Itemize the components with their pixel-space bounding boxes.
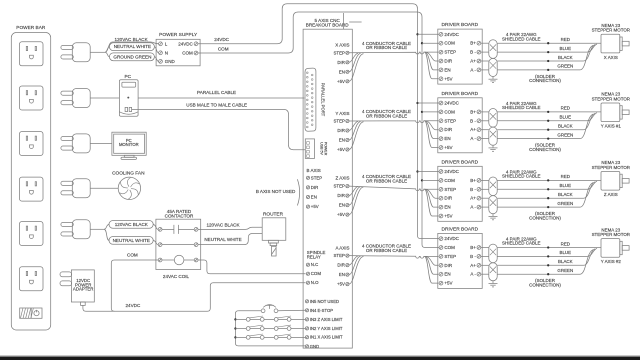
- wire A AXIS +5V fan-out: [425, 256, 439, 283]
- svg-text:B -: B -: [470, 118, 476, 123]
- breakout Y AXIS DIR terminal: [337, 128, 349, 133]
- svg-text:+5V: +5V: [444, 214, 452, 219]
- label solder connection board 4: [529, 278, 561, 287]
- USB port: [305, 139, 314, 159]
- svg-text:STEPPER MOTOR: STEPPER MOTOR: [592, 28, 630, 33]
- power switch symbol: [34, 310, 39, 316]
- svg-text:STEP: STEP: [444, 50, 456, 55]
- junction dot limit bus IN2 Y: [234, 327, 236, 329]
- outlet 1: [19, 42, 43, 66]
- svg-text:RED: RED: [561, 106, 570, 111]
- svg-text:IN2 Y AXIS LIMIT: IN2 Y AXIS LIMIT: [310, 326, 343, 331]
- contactor contact symbol row1: [162, 225, 194, 234]
- junction dot 24VDC bus board 1: [416, 33, 418, 35]
- twisted pair capsule 2 board 1: [489, 58, 497, 76]
- svg-text:120VAC BLACK: 120VAC BLACK: [115, 222, 149, 227]
- power supply box: [156, 39, 200, 66]
- driver 1 terminal A+: [470, 59, 481, 64]
- label 4 conductor cable A AXIS: [362, 244, 411, 253]
- svg-text:B -: B -: [470, 50, 476, 55]
- plug P2 (PC): [61, 89, 90, 108]
- wires driver 1 to twisted pairs: [481, 43, 489, 70]
- wire X AXIS EN fan-in: [349, 53, 361, 71]
- svg-text:OR RIBBON CABLE: OR RIBBON CABLE: [366, 113, 407, 118]
- limit switches IN1 X axis: [235, 334, 305, 339]
- svg-text:24VAC COIL: 24VAC COIL: [163, 274, 190, 279]
- spindle relay label: [307, 250, 326, 259]
- svg-text:BLACK: BLACK: [558, 259, 573, 264]
- driver 3 terminal +5V: [439, 214, 452, 219]
- wire Z AXIS +5V fan-out: [425, 189, 439, 216]
- wires driver 3 to twisted pairs: [481, 180, 489, 207]
- power bar switch (hatched box): [20, 308, 42, 318]
- svg-text:STEP: STEP: [444, 254, 456, 259]
- wire Y AXIS EN fan-out: [425, 121, 439, 139]
- breakout board leader line: [344, 13, 362, 29]
- solder junction dot RED board 3: [547, 179, 549, 181]
- wire to contactor row1: [104, 224, 158, 229]
- wire plug P5 to splitter: [90, 228, 104, 230]
- solder junction dot BLACK board 1: [547, 60, 549, 62]
- driver board 1 box: [438, 29, 482, 84]
- svg-text:SHIELDED CABLE: SHIELDED CABLE: [502, 174, 541, 179]
- svg-text:X AXIS: X AXIS: [604, 55, 618, 60]
- wire 24VDC bus to driver 3: [418, 171, 440, 173]
- wire plug P4 to fan: [90, 187, 118, 189]
- outlet 5: [19, 222, 43, 246]
- svg-text:A -: A -: [470, 272, 476, 277]
- breakout B AXIS STEP terminal: [306, 175, 322, 180]
- wire 24VDC bus to driver 1: [418, 33, 440, 35]
- cable shield ground board 2: [489, 145, 498, 151]
- wire BLACK board 3: [497, 182, 595, 198]
- junction dot COM bus board 3: [421, 179, 423, 181]
- PC monitor label: [119, 138, 139, 147]
- svg-text:Z AXIS: Z AXIS: [335, 176, 349, 181]
- wire Y AXIS DIR fan-out: [425, 121, 439, 130]
- driver 1 terminal 24VDC: [439, 32, 460, 37]
- limit switch left bus: [235, 311, 305, 346]
- svg-text:+5V: +5V: [444, 145, 452, 150]
- svg-text:STEP: STEP: [444, 187, 456, 192]
- breakout board body: [303, 29, 352, 348]
- svg-text:+5V: +5V: [444, 76, 452, 81]
- label GROUND GREEN in stadium: [109, 53, 154, 61]
- wire Z AXIS +5V fan-in: [349, 187, 364, 215]
- twist cross 1 board 2: [490, 113, 496, 120]
- wire GREEN board 1: [497, 45, 593, 70]
- twisted pair capsule 1 board 3: [489, 177, 497, 196]
- solder junction dot BLUE board 2: [547, 120, 549, 122]
- junction dot limit bus IN3 Z: [234, 318, 236, 320]
- terminal COM output: [182, 51, 198, 56]
- svg-text:GREEN: GREEN: [557, 132, 573, 137]
- svg-text:CONNECTION): CONNECTION): [529, 215, 561, 220]
- wire GREEN board 3: [497, 183, 593, 208]
- wire RED board 2: [497, 111, 601, 113]
- driver 3 terminal A -: [470, 205, 480, 210]
- power bar body: [11, 33, 50, 331]
- plug P4 (cooling fan): [61, 179, 90, 198]
- breakout Z AXIS STEP terminal: [334, 184, 349, 189]
- breakout input terminal GND: [305, 344, 319, 349]
- label NEUTRAL WHITE in stadium (contactor input): [109, 237, 153, 245]
- svg-text:A -: A -: [470, 136, 476, 141]
- spindle relay COM terminal: [306, 271, 321, 276]
- wire GREEN board 2: [497, 114, 593, 139]
- svg-text:A+: A+: [470, 59, 476, 64]
- contactor terminals row1: [158, 228, 198, 232]
- driver 4 terminal STEP: [439, 254, 456, 259]
- wire A AXIS ribbon cable main line with hops: [349, 256, 439, 259]
- svg-text:IN5 NOT USED: IN5 NOT USED: [310, 299, 339, 304]
- svg-text:BLUE: BLUE: [560, 250, 572, 255]
- svg-text:B -: B -: [470, 187, 476, 192]
- parallel port DB25 connector: [305, 68, 316, 131]
- breakout Z AXIS +5V terminal: [337, 212, 349, 217]
- wire parallel cable: [138, 97, 304, 99]
- PC tower: [119, 80, 138, 117]
- wire Y AXIS +5V fan-in: [349, 122, 364, 150]
- plug P5 (contactor): [61, 220, 90, 239]
- svg-text:USB 5V: USB 5V: [320, 142, 324, 155]
- svg-text:STEPPER MOTOR: STEPPER MOTOR: [592, 165, 630, 170]
- svg-text:OR RIBBON CABLE: OR RIBBON CABLE: [366, 248, 407, 253]
- driver 1 terminal +5V: [439, 76, 452, 81]
- svg-text:A+: A+: [470, 263, 476, 268]
- driver 2 terminal 24VDC: [439, 101, 460, 106]
- twisted pair capsule 2 board 4: [489, 263, 497, 281]
- breakout B AXIS +5V terminal: [306, 204, 318, 209]
- wire A AXIS DIR fan-out: [425, 256, 439, 265]
- stepper motor M2: [601, 103, 629, 122]
- breakout A AXIS EN terminal: [339, 272, 349, 277]
- wire GREEN board 4: [497, 250, 593, 275]
- wire ground green to GND: [105, 52, 159, 61]
- svg-text:COM: COM: [311, 271, 322, 276]
- svg-text:N.O: N.O: [311, 280, 319, 285]
- wire BLACK board 2: [497, 113, 595, 129]
- svg-text:CONNECTION): CONNECTION): [529, 147, 561, 152]
- svg-text:RED: RED: [561, 241, 570, 246]
- svg-text:COM: COM: [182, 51, 193, 56]
- svg-text:DRIVER BOARD: DRIVER BOARD: [442, 226, 479, 232]
- svg-text:IN3 Z AXIS LIMIT: IN3 Z AXIS LIMIT: [310, 317, 343, 322]
- wire X AXIS DIR fan-out: [425, 52, 439, 61]
- svg-text:STEPPER MOTOR: STEPPER MOTOR: [592, 232, 630, 237]
- svg-text:RED: RED: [561, 37, 570, 42]
- svg-text:STEP: STEP: [334, 119, 345, 124]
- driver 2 terminal STEP: [439, 118, 456, 123]
- svg-text:POWER SUPPLY: POWER SUPPLY: [159, 32, 198, 38]
- driver 4 terminal B -: [470, 254, 481, 259]
- terminal GND: [159, 59, 176, 64]
- svg-text:DIR: DIR: [311, 185, 318, 190]
- solder junction dot RED board 1: [547, 42, 549, 44]
- solder junction dot RED board 2: [547, 111, 549, 113]
- svg-text:COM: COM: [444, 109, 455, 114]
- driver 3 terminal EN: [439, 205, 451, 210]
- router collet and plug: [269, 240, 279, 256]
- driver 2 terminal COM: [439, 109, 455, 114]
- wire coil COM to bottom rail: [111, 260, 158, 311]
- label 4 pair 22AWG shielded cable 3: [502, 169, 541, 178]
- stepper motor M2 label: [592, 92, 630, 102]
- label solder connection board 1: [529, 74, 561, 83]
- svg-text:IN4 E-STOP: IN4 E-STOP: [310, 308, 333, 313]
- svg-text:Y AXIS: Y AXIS: [335, 111, 349, 116]
- breakout B AXIS EN terminal: [306, 195, 316, 200]
- driver 1 terminal EN: [439, 67, 451, 72]
- label 4 pair 22AWG shielded cable 2: [502, 101, 541, 110]
- stepper motor M3: [601, 172, 629, 191]
- label 4 pair 22AWG shielded cable 1: [502, 32, 541, 41]
- driver 4 terminal A -: [470, 272, 480, 277]
- solder junction dot BLACK board 4: [547, 264, 549, 266]
- wire A AXIS EN fan-out: [425, 256, 439, 274]
- twist cross 2 board 2: [490, 131, 496, 138]
- junction dot 24VDC bus board 2: [416, 102, 418, 104]
- solder junction dot GREEN board 4: [547, 273, 549, 275]
- svg-text:X AXIS: X AXIS: [335, 42, 349, 47]
- driver 3 terminal STEP: [439, 187, 456, 192]
- spindle relay N.O terminal: [306, 280, 319, 285]
- svg-text:DIR: DIR: [337, 193, 344, 198]
- wire coil to spindle relay COM: [198, 260, 306, 274]
- svg-text:COM: COM: [444, 41, 455, 46]
- svg-text:COM: COM: [218, 46, 229, 51]
- wire plug P2 to PC: [90, 97, 119, 99]
- svg-text:STEP: STEP: [334, 253, 345, 258]
- svg-text:GND: GND: [165, 59, 176, 64]
- svg-text:BLACK: BLACK: [558, 192, 573, 197]
- junction dot COM bus board 2: [421, 111, 423, 113]
- contactor coil row3: [158, 255, 198, 265]
- svg-text:ROUTER: ROUTER: [263, 211, 284, 217]
- svg-text:24VDC: 24VDC: [444, 236, 459, 241]
- svg-text:B AXIS NOT USED: B AXIS NOT USED: [256, 189, 296, 194]
- svg-text:B -: B -: [470, 254, 476, 259]
- driver 3 terminal DIR: [439, 196, 453, 201]
- wire RED board 1: [497, 42, 601, 44]
- svg-text:DIR: DIR: [444, 263, 453, 268]
- driver board 3 box: [438, 166, 482, 221]
- driver 4 terminal EN: [439, 272, 451, 277]
- svg-text:BLACK: BLACK: [558, 124, 573, 129]
- breakout X AXIS +5V terminal: [337, 79, 349, 84]
- wire usb cable: [132, 109, 305, 149]
- stepper motor M4: [601, 239, 629, 258]
- solder junction dot BLUE board 3: [547, 188, 549, 190]
- svg-text:24VDC: 24VDC: [214, 37, 229, 42]
- driver 2 terminal B -: [470, 118, 481, 123]
- breakout input terminal IN2 Y AXIS LIMIT: [305, 326, 343, 331]
- wire 24VDC from power supply to driver bus: [198, 4, 439, 239]
- svg-text:EN: EN: [444, 67, 450, 72]
- breakout Z AXIS EN terminal: [339, 203, 349, 208]
- svg-text:DIR: DIR: [444, 196, 453, 201]
- wire to contactor row2: [104, 229, 158, 244]
- svg-text:GROUND GREEN: GROUND GREEN: [113, 54, 151, 59]
- svg-text:A AXIS: A AXIS: [335, 245, 349, 250]
- svg-text:DIR: DIR: [337, 60, 344, 65]
- driver 4 terminal 24VDC: [439, 236, 460, 241]
- svg-text:NEUTRAL WHITE: NEUTRAL WHITE: [114, 44, 151, 49]
- svg-text:B AXIS: B AXIS: [307, 168, 321, 173]
- PC monitor: [112, 132, 146, 159]
- wire 24VDC bus to driver 2: [418, 102, 440, 104]
- wire Y AXIS EN fan-in: [349, 122, 361, 140]
- svg-text:COM: COM: [444, 178, 455, 183]
- wire X AXIS ribbon cable main line with hops: [349, 52, 439, 54]
- breakout B AXIS DIR terminal: [306, 185, 318, 190]
- breakout A AXIS STEP terminal: [334, 253, 349, 258]
- driver 2 terminal A -: [470, 136, 480, 141]
- svg-text:ADAPTER: ADAPTER: [73, 287, 94, 292]
- svg-text:+5V: +5V: [444, 281, 452, 286]
- label 4 conductor cable Z AXIS: [362, 174, 411, 183]
- driver 2 terminal DIR: [439, 127, 453, 132]
- svg-text:RED: RED: [561, 174, 570, 179]
- wire BLUE board 2: [497, 113, 597, 121]
- 12VDC power adapter label: [73, 278, 94, 292]
- breakout X AXIS STEP terminal: [334, 50, 349, 55]
- svg-text:+5V: +5V: [337, 282, 345, 287]
- outlet 6: [19, 267, 43, 291]
- spindle relay N.C terminal: [306, 262, 318, 267]
- driver 4 terminal DIR: [439, 263, 453, 268]
- twisted pair capsule 2 board 3: [489, 196, 497, 214]
- svg-text:B+: B+: [470, 245, 476, 250]
- label NEUTRAL WHITE in stadium: [109, 43, 154, 51]
- label solder connection board 2: [529, 143, 561, 152]
- svg-text:CONTACTOR: CONTACTOR: [165, 214, 194, 219]
- svg-text:OR RIBBON CABLE: OR RIBBON CABLE: [366, 178, 407, 183]
- driver 2 terminal EN: [439, 136, 451, 141]
- breakout input terminal IN4 E-STOP: [305, 308, 333, 313]
- wire X AXIS EN fan-out: [425, 52, 439, 70]
- svg-text:24VDC: 24VDC: [178, 41, 193, 46]
- wire Z AXIS ribbon cable main line with hops: [349, 186, 439, 191]
- plug P3 (monitor): [61, 134, 90, 153]
- driver 3 terminal COM: [439, 178, 455, 183]
- svg-text:EN: EN: [311, 195, 317, 200]
- wire plug P1 to splitter: [90, 51, 105, 53]
- svg-text:NEUTRAL WHITE: NEUTRAL WHITE: [113, 238, 150, 243]
- solder junction dot GREEN board 1: [547, 69, 549, 71]
- svg-text:EN: EN: [444, 205, 450, 210]
- driver 4 terminal +5V: [439, 281, 452, 286]
- wire Y AXIS DIR fan-in: [349, 121, 358, 130]
- driver 4 terminal B+: [470, 245, 481, 250]
- svg-text:CONNECTION): CONNECTION): [529, 78, 561, 83]
- driver 1 terminal STEP: [439, 50, 456, 55]
- svg-text:DIR: DIR: [444, 127, 453, 132]
- stepper motor M1: [601, 34, 629, 53]
- svg-text:+5V: +5V: [311, 204, 319, 209]
- svg-text:PARALLEL PORT: PARALLEL PORT: [320, 83, 325, 117]
- svg-text:120VAC BLACK: 120VAC BLACK: [115, 37, 149, 42]
- stepper motor M3 label: [592, 160, 630, 170]
- svg-text:A -: A -: [470, 67, 476, 72]
- wire BLACK board 1: [497, 45, 595, 61]
- driver 3 terminal B -: [470, 187, 481, 192]
- breakout board label: [306, 18, 349, 27]
- cable shield ground board 4: [489, 281, 498, 287]
- label 4 pair 22AWG shielded cable 4: [502, 236, 541, 245]
- svg-text:POWER: POWER: [323, 142, 327, 156]
- twisted pair capsule 1 board 4: [489, 244, 497, 263]
- bottom video bar: [0, 355, 640, 356]
- svg-text:24VDC: 24VDC: [444, 32, 459, 37]
- contactor box: [156, 219, 201, 269]
- svg-text:N.C: N.C: [311, 262, 318, 267]
- solder junction dot BLUE board 4: [547, 255, 549, 257]
- svg-text:24VDC: 24VDC: [125, 303, 140, 308]
- driver 1 terminal DIR: [439, 59, 453, 64]
- svg-text:DRIVER BOARD: DRIVER BOARD: [442, 91, 479, 97]
- twist cross 1 board 4: [490, 249, 496, 256]
- svg-text:24VDC: 24VDC: [444, 169, 459, 174]
- driver 3 terminal 24VDC: [439, 169, 460, 174]
- B axis callout curve: [297, 179, 299, 205]
- driver 4 terminal A+: [470, 263, 481, 268]
- limit switches IN2 Y axis: [235, 325, 305, 330]
- svg-text:COOLING FAN: COOLING FAN: [112, 170, 145, 176]
- limit switches IN3 Z axis: [235, 316, 305, 321]
- label 4 conductor cable X AXIS: [362, 41, 411, 50]
- wire neutral white to N: [105, 47, 159, 53]
- junction dot COM bus board 1: [421, 42, 423, 44]
- svg-text:SHIELDED CABLE: SHIELDED CABLE: [502, 36, 541, 41]
- wire A AXIS +5V fan-in: [349, 256, 364, 284]
- solder junction dot BLACK board 2: [547, 129, 549, 131]
- svg-text:RELAY: RELAY: [307, 254, 321, 259]
- svg-text:USB MALE TO MALE CABLE: USB MALE TO MALE CABLE: [186, 103, 247, 108]
- plug P1 (power supply): [61, 43, 90, 62]
- svg-text:CONNECTION): CONNECTION): [529, 283, 561, 288]
- svg-text:BLUE: BLUE: [560, 115, 572, 120]
- svg-text:DIR: DIR: [337, 263, 344, 268]
- wire adapter to spindle relay N.O.: [83, 283, 306, 312]
- svg-text:SHIELDED CABLE: SHIELDED CABLE: [502, 241, 541, 246]
- driver 2 terminal +5V: [439, 145, 452, 150]
- outlet 2: [19, 86, 43, 110]
- svg-text:BREAKOUT BOARD: BREAKOUT BOARD: [306, 22, 349, 27]
- wire plug P3 to monitor: [90, 142, 112, 144]
- svg-text:GND: GND: [310, 344, 319, 349]
- breakout Z AXIS DIR terminal: [337, 193, 349, 198]
- junction dot limit bus IN1 X: [234, 336, 236, 338]
- svg-text:EN: EN: [339, 69, 345, 74]
- driver 1 terminal B+: [470, 41, 481, 46]
- wire COM bus to driver 1: [422, 42, 439, 44]
- driver 4 terminal COM: [439, 245, 455, 250]
- svg-text:POWER BAR: POWER BAR: [16, 25, 46, 31]
- svg-text:GREEN: GREEN: [557, 64, 573, 69]
- wire Z AXIS EN fan-in: [349, 187, 361, 205]
- terminal 24VDC output: [178, 41, 198, 46]
- label 120VAC BLACK in stadium (contactor input): [109, 221, 153, 229]
- svg-text:DIR: DIR: [337, 128, 344, 133]
- stepper motor M1 label: [592, 23, 630, 33]
- svg-text:+5V: +5V: [337, 212, 345, 217]
- svg-text:A+: A+: [470, 196, 476, 201]
- breakout input terminal IN3 Z AXIS LIMIT: [305, 317, 342, 322]
- driver 2 terminal A+: [470, 127, 481, 132]
- solder junction dot GREEN board 3: [547, 206, 549, 208]
- label 4 conductor cable Y AXIS: [362, 109, 411, 118]
